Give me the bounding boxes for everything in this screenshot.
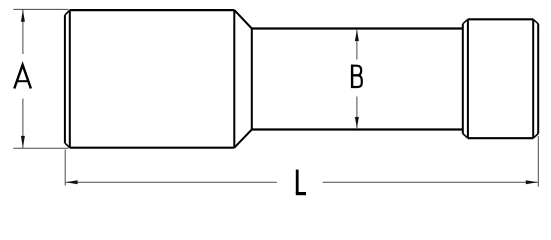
node: label A [14,65,31,89]
wire: middle cylinder top edge [252,27,463,29]
wire: head top edge [468,18,533,20]
node: dimension A arrow up [21,10,25,22]
wire: head bottom-left chamfer [463,134,468,139]
node: dimension L arrow right [526,180,538,184]
wire: dimension B line upper segment [356,30,358,60]
node: dimension B arrow down [355,117,359,128]
node: dimension B arrow up [355,30,359,41]
wire: head left chamfer edge line [467,19,469,138]
wire: head right end face [537,24,539,134]
wire: dimension L line right segment [323,181,538,183]
node: dimension L arrow left [66,180,78,184]
wire: dimension A line lower segment [22,99,24,149]
wire: head top-right chamfer [533,19,538,24]
wire: dimension L line left segment [66,181,277,183]
wire: shoulder edge line at taper start [233,10,235,148]
wire: part outline, large cylinder bottom edge [70,147,235,149]
wire: dimension L left extension line [64,150,66,186]
wire: part outline, large cylinder top edge [70,9,235,11]
wire: large cylinder top-left chamfer [65,10,70,15]
node: dimension A arrow down [21,136,25,148]
wire: large cylinder bottom-left chamfer [65,143,70,148]
wire: head top-left chamfer [463,19,468,24]
node: label B [351,65,362,88]
wire: taper top diagonal [234,10,252,28]
wire: head right chamfer edge line [532,19,534,138]
wire: large cylinder chamfer edge line [69,10,71,148]
wire: middle cylinder bottom edge [252,128,463,130]
wire: taper small-end edge line [251,29,253,130]
wire: dimension A bottom extension line [13,147,68,149]
wire: dimension A line upper segment [22,9,24,54]
wire: dimension A top extension line [13,8,68,10]
wire: dimension B line lower segment [356,97,358,129]
wire: taper bottom diagonal [234,130,252,148]
wire: head bottom edge [468,137,533,139]
wire: large cylinder left end face [64,15,66,143]
node: label L [296,170,306,194]
wire: head bottom-right chamfer [533,134,538,139]
wire: dimension L right extension line [537,136,539,187]
wire: head left face [462,24,464,134]
